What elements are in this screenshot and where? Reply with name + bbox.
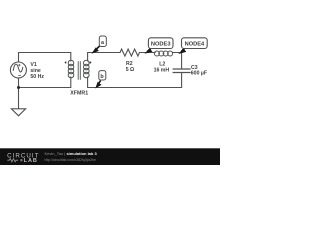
- wire L2 to cap junction: [172, 53, 181, 70]
- svg-text:R2: R2: [126, 61, 133, 67]
- label L2 16mH: [154, 61, 170, 73]
- phase dot secondary: [89, 62, 91, 64]
- flag b: [96, 71, 106, 88]
- svg-text:NODE3: NODE3: [151, 42, 171, 48]
- watermark bar: [0, 148, 220, 165]
- svg-text:16 mH: 16 mH: [154, 67, 170, 73]
- junction dot: [17, 86, 20, 89]
- wire bottom primary: [19, 77, 71, 88]
- transformer XFMR1: [68, 60, 89, 80]
- secondary winding: [84, 60, 90, 66]
- primary winding: [68, 60, 74, 66]
- ground: [11, 109, 25, 116]
- core: [78, 61, 80, 80]
- svg-text:50 Hz: 50 Hz: [30, 74, 44, 80]
- svg-text:NODE4: NODE4: [185, 42, 205, 48]
- wire cap bottom to rail: [88, 73, 182, 88]
- svg-text:LAB: LAB: [24, 158, 38, 164]
- flag a: [93, 36, 107, 53]
- inductor L2: [154, 51, 172, 56]
- flag NODE3: [146, 38, 173, 53]
- svg-text:XFMR1: XFMR1: [70, 91, 88, 97]
- svg-text:5 Ω: 5 Ω: [126, 67, 135, 73]
- wire top rail primary: [19, 53, 71, 63]
- wire ground tap: [18, 88, 20, 110]
- svg-text:http://circuitlab.com/c382fq3p: http://circuitlab.com/c382fq3pz2be: [45, 158, 97, 162]
- watermark text: [45, 151, 98, 162]
- label C3 600uF: [191, 65, 207, 77]
- svg-text:Kevin_Tao | simulation lab 3: Kevin_Tao | simulation lab 3: [45, 151, 98, 156]
- logo CIRCUIT LAB: [7, 153, 39, 165]
- label V1 sine 50 Hz: [30, 62, 44, 80]
- resistor R2: [120, 49, 140, 56]
- label R2 5ohm: [126, 61, 135, 73]
- svg-text:600 µF: 600 µF: [191, 71, 207, 77]
- wire secondary top to R2: [88, 53, 120, 62]
- wire R2 to L2: [140, 52, 156, 54]
- flag NODE4: [180, 38, 207, 53]
- capacitor C3: [173, 69, 191, 73]
- phase dot primary: [65, 62, 67, 64]
- voltage source V1: [10, 62, 26, 78]
